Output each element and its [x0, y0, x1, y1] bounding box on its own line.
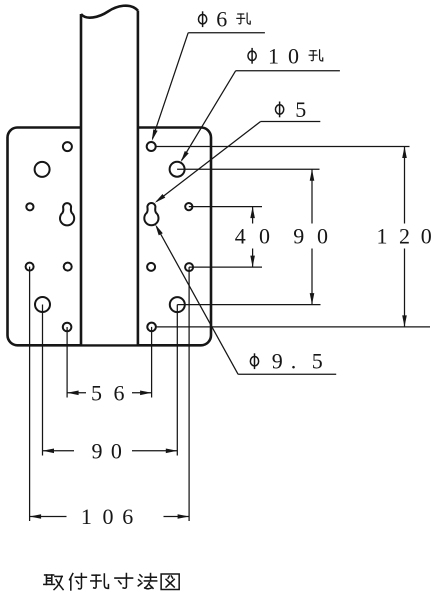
leader line to keyhole bottom: [157, 227, 239, 375]
extension down from bottom-right hole (56): [151, 327, 153, 398]
dim 120 line lower: [404, 249, 406, 327]
pole left edge: [80, 14, 83, 345]
dim 106 line left: [30, 516, 67, 518]
extension down from lower-left phi10 (90): [42, 305, 44, 456]
extension down from bottom-left hole (56): [66, 327, 68, 398]
svg-text:.: .: [291, 349, 297, 374]
hole phi6 top-left: [63, 142, 72, 151]
svg-text:9: 9: [272, 349, 283, 374]
dim 56 line left: [67, 392, 86, 394]
dim 90 arrow down: [310, 293, 315, 305]
extension line from phi6 hole (120 top): [156, 146, 410, 148]
leader underline phi9.5: [238, 373, 336, 375]
extension line from lower phi10 (90 bottom): [177, 304, 320, 306]
leader underline phi6: [188, 32, 265, 34]
extension line from mid-right phi5 hole (40 top): [189, 206, 262, 208]
leader underline phi5: [261, 121, 321, 123]
hole phi6 top-right: [147, 142, 156, 151]
phi symbol (phi6 label): [198, 11, 206, 27]
hole bottom-left: [63, 323, 72, 332]
extension line row4 (40 bottom): [189, 266, 262, 268]
svg-text:0: 0: [288, 43, 299, 68]
leader arrow at phi6 hole: [152, 129, 158, 141]
dim 120 line upper: [404, 147, 406, 224]
leader arrow at phi10 hole: [181, 151, 189, 162]
svg-text:6: 6: [216, 7, 227, 32]
svg-text:1: 1: [81, 504, 92, 529]
extension line from bottom hole (120 bottom): [156, 326, 430, 328]
svg-text:9: 9: [92, 438, 103, 463]
hole phi5 mid-right: [185, 203, 192, 210]
svg-text:1: 1: [377, 224, 388, 249]
hole row4 mid-right: [147, 263, 155, 271]
extension line from upper phi10 (90 top): [177, 168, 319, 170]
svg-text:0: 0: [421, 224, 432, 249]
leader line to phi6 hole: [153, 33, 189, 139]
dim 90 bottom arrow left: [43, 449, 55, 454]
svg-text:6: 6: [114, 380, 125, 405]
svg-text:2: 2: [399, 224, 410, 249]
caption kanji kou (孔): [91, 574, 109, 588]
caption kanji pou (法): [138, 574, 156, 589]
leader line to phi10 hole: [182, 71, 236, 161]
pole right edge: [137, 11, 140, 346]
hole row4 far-left: [26, 263, 34, 271]
hole row4 mid-left: [64, 263, 72, 271]
dim 120 arrow up: [402, 147, 407, 159]
caption kanji tsuke (付): [70, 574, 87, 590]
hole phi10 upper-left: [35, 162, 50, 177]
svg-text:0: 0: [317, 224, 328, 249]
keyhole slot left (phi5 top / phi9.5 bottom): [60, 203, 74, 225]
pole (pipe) with break-line top: [81, 6, 138, 345]
keyhole slot right (phi5 top / phi9.5 bottom): [144, 203, 158, 225]
hole row4 far-right: [185, 263, 193, 271]
dim 40 line upper: [252, 207, 254, 224]
dim 106 arrow right: [178, 514, 190, 519]
extension down from lower-right phi10 (90): [176, 305, 178, 456]
dim 90 bottom arrow right: [166, 449, 178, 454]
svg-text:5: 5: [312, 349, 323, 374]
mounting plate outline: [8, 128, 212, 346]
leader underline phi10: [236, 70, 340, 72]
svg-text:0: 0: [103, 504, 114, 529]
hole phi5 mid-left: [26, 203, 33, 210]
dim 90 arrow up: [310, 169, 315, 181]
leader line to keyhole top: [157, 122, 261, 202]
dim 90 bottom line right: [132, 450, 177, 452]
dim 106 line right: [164, 516, 190, 518]
phi symbol (phi5 label): [275, 102, 283, 118]
dim 90 line lower: [311, 249, 313, 305]
dim 90 line upper: [311, 169, 313, 223]
phi symbol (phi10 label): [248, 48, 256, 64]
dim 56 arrow left: [67, 391, 79, 396]
leader arrow at keyhole bottom circle: [155, 224, 163, 235]
dim 106 arrow left: [30, 514, 41, 519]
dim 120 arrow down: [402, 315, 407, 327]
hole phi10 upper-right: [170, 162, 185, 177]
leader arrow at keyhole top circle: [155, 194, 166, 203]
extension down from row4 far-left (106): [29, 267, 31, 521]
dim 56 arrow right: [140, 391, 152, 396]
svg-text:5: 5: [295, 97, 306, 122]
dim 40 arrow down: [250, 256, 255, 268]
dim 56 line right: [132, 392, 152, 394]
extension down from row4 far-right (106): [188, 267, 190, 521]
svg-text:9: 9: [293, 224, 304, 249]
caption kanji tori (取): [44, 575, 63, 590]
caption kanji sun (寸): [115, 574, 133, 589]
dim 90 bottom line left: [43, 450, 75, 452]
caption kanji zu (図): [161, 574, 179, 590]
hole phi10 lower-right: [170, 297, 185, 312]
svg-text:0: 0: [259, 224, 270, 249]
svg-text:6: 6: [122, 504, 133, 529]
dim 40 arrow up: [250, 207, 255, 219]
svg-text:4: 4: [235, 224, 246, 249]
hole phi10 lower-left: [35, 297, 50, 312]
phi symbol (phi9.5 label): [250, 353, 258, 369]
dim 40 line lower: [252, 249, 254, 268]
svg-text:1: 1: [268, 43, 279, 68]
kanji kou (phi6 label): [237, 13, 250, 24]
hole bottom-right: [147, 323, 156, 332]
svg-text:0: 0: [111, 438, 122, 463]
kanji kou (phi10 label): [309, 50, 323, 61]
svg-text:5: 5: [91, 380, 102, 405]
